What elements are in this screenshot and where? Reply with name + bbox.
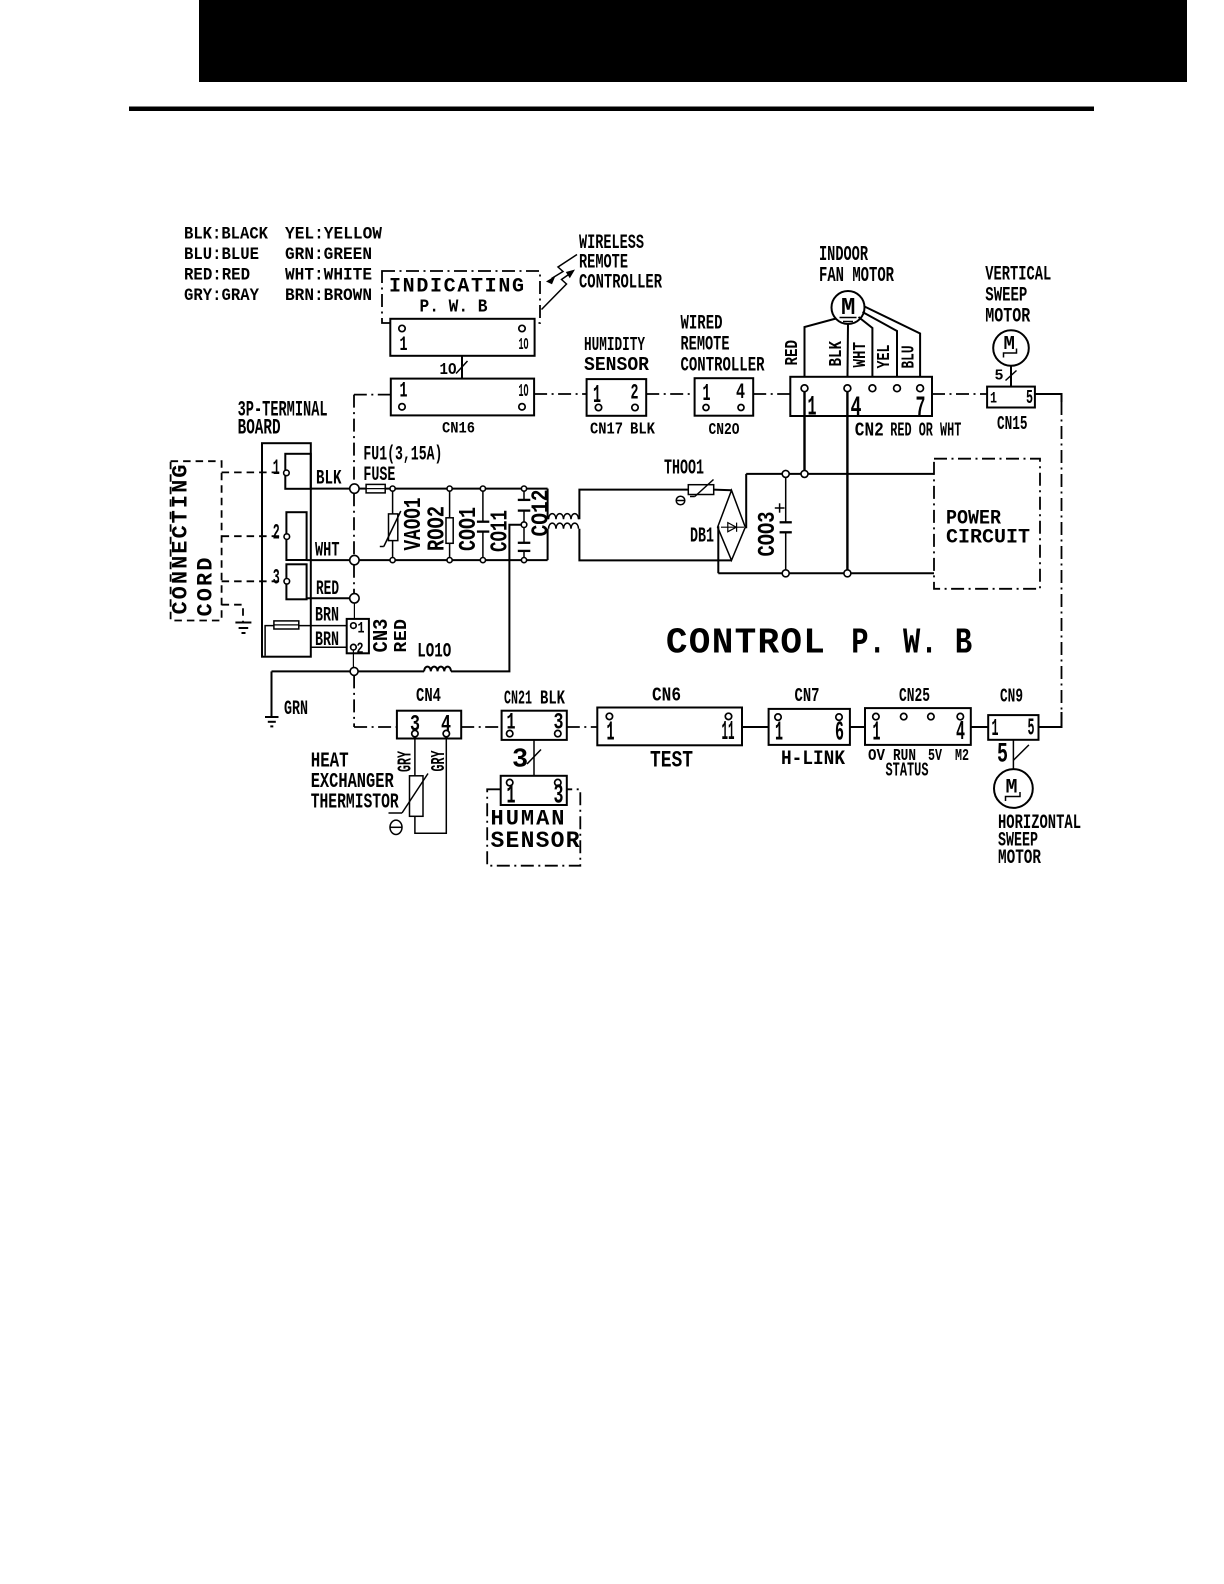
connector CN17 humidity sensor: [587, 379, 656, 439]
svg-text:YEL: YEL: [875, 345, 895, 369]
svg-text:4: 4: [736, 380, 745, 405]
svg-text:FAN MOTOR: FAN MOTOR: [819, 265, 894, 288]
human sensor connector: [501, 776, 567, 812]
heat exchanger thermistor label: [311, 751, 399, 815]
wire DB1 minus drop to bottom rail: [717, 527, 720, 573]
svg-text:3: 3: [273, 566, 280, 591]
motor M vertical sweep: [993, 330, 1029, 366]
svg-text:4: 4: [956, 718, 965, 748]
svg-text:1O: 1O: [440, 361, 457, 380]
svg-text:1: 1: [400, 334, 408, 357]
terminal 1: [273, 454, 311, 489]
svg-text:CONTROLLER: CONTROLLER: [681, 355, 765, 378]
node C003 top: [782, 470, 789, 477]
svg-text:H-LINK: H-LINK: [781, 748, 845, 771]
svg-text:HUMIDITY: HUMIDITY: [584, 334, 645, 356]
svg-text:1: 1: [507, 782, 516, 812]
wire L010 to riser: [451, 525, 521, 672]
terminal 3: [273, 564, 307, 599]
svg-text:5: 5: [1026, 387, 1033, 409]
svg-text:CN17: CN17: [590, 421, 623, 440]
wire CN25 to CN9: [971, 726, 988, 728]
connecting cord dashed box: [169, 461, 222, 620]
svg-text:CN6: CN6: [652, 685, 681, 707]
svg-text:RED: RED: [783, 340, 803, 366]
svg-text:WHT: WHT: [851, 342, 871, 368]
svg-text:CIRCUIT: CIRCUIT: [946, 527, 1030, 550]
svg-text:1: 1: [273, 456, 280, 481]
capacitor C003: [780, 477, 792, 569]
power circuit dashed box: [934, 459, 1040, 589]
svg-text:CN4: CN4: [416, 685, 441, 707]
wire dashed cord to earth: [222, 605, 243, 622]
motor M horizontal sweep: [994, 769, 1033, 808]
svg-text:CN2O: CN2O: [709, 421, 740, 440]
wire dash-dot right boundary vertical: [1061, 402, 1063, 712]
wire dash-dot CN4 to CN21: [461, 726, 501, 728]
fuse FU1: [359, 484, 385, 493]
wire line filter bottom rail: [359, 559, 547, 561]
svg-text:COO1: COO1: [456, 507, 483, 551]
wired remote controller label: [681, 313, 765, 378]
motor M indoor fan: [832, 291, 865, 324]
labels OV RUN 5V M2 STATUS: [868, 747, 969, 782]
svg-text:RED OR WHT: RED OR WHT: [890, 420, 961, 442]
svg-text:1O: 1O: [519, 382, 529, 402]
capacitor C011/C012 pair upper: [518, 486, 531, 528]
svg-text:6: 6: [835, 719, 844, 749]
svg-text:SENSOR: SENSOR: [491, 828, 580, 854]
humidity sensor label: [584, 334, 650, 376]
svg-text:RED:RED: RED:RED: [184, 266, 250, 286]
connector CN6: [597, 685, 742, 774]
wire WHT terminal to PWB: [307, 559, 350, 561]
svg-text:WHT: WHT: [315, 540, 340, 563]
vertical sweep motor label: [985, 264, 1051, 329]
connector CN15: [987, 387, 1035, 435]
wire dashed cord to terminal 1: [222, 471, 284, 473]
svg-text:3: 3: [512, 746, 528, 776]
wire dash-dot CN2 to CN15: [932, 393, 987, 395]
svg-text:WIRED: WIRED: [681, 313, 723, 336]
inductor L010: [417, 641, 451, 672]
PWB boundary dash-dot vertical upper: [353, 395, 355, 594]
svg-text:BRN: BRN: [315, 605, 339, 628]
svg-text:INDICATING: INDICATING: [389, 276, 524, 299]
bridge rectifier DB1: [718, 490, 746, 560]
svg-text:1O: 1O: [519, 335, 529, 354]
connector CN2: [790, 377, 932, 424]
connector CN21: [502, 688, 567, 740]
svg-text:11: 11: [722, 718, 735, 748]
wire CN15 to right boundary: [1035, 394, 1062, 402]
svg-text:CONTROL: CONTROL: [666, 623, 825, 664]
capacitor C012 pair lower: [518, 528, 531, 563]
node CN2 pin1 junction: [801, 470, 808, 477]
resistor R002: [446, 486, 453, 563]
wire thermistor loop to CN4 pin4: [415, 737, 446, 834]
PWB boundary dash-dot to CN4: [354, 675, 397, 727]
theta symbol thermistor: [390, 820, 402, 834]
wire motor WHT: [859, 317, 873, 385]
svg-text:BLK: BLK: [540, 688, 565, 710]
wire CN7 to CN25: [850, 726, 865, 728]
PWB boundary terminal circle BLK: [350, 484, 359, 493]
indicating PWB connector (mates CN16): [390, 319, 534, 357]
svg-text:CN3: CN3: [371, 619, 394, 653]
svg-text:MOTOR: MOTOR: [985, 306, 1031, 329]
svg-text:CONNECTING: CONNECTING: [169, 465, 194, 615]
svg-text:CN2: CN2: [855, 420, 884, 442]
wire DC top rail: [746, 473, 934, 475]
node CN2 pin4 junction: [844, 570, 851, 577]
svg-text:P. W. B: P. W. B: [851, 623, 972, 664]
indicating PWB dashed box: [382, 271, 540, 323]
svg-text:BRN:BROWN: BRN:BROWN: [285, 286, 372, 306]
label FU1 fuse: [363, 444, 442, 488]
node circle on GRN wire: [350, 667, 358, 675]
wire motor YEL: [863, 312, 898, 385]
svg-text:SENSOR: SENSOR: [584, 354, 650, 376]
svg-text:REMOTE: REMOTE: [681, 334, 730, 357]
svg-text:CN21: CN21: [504, 688, 532, 710]
thermal fuse in terminal board: [265, 621, 299, 656]
wire RED terminal to PWB: [307, 597, 350, 599]
svg-text:CN25: CN25: [899, 685, 930, 707]
connector CN16: [391, 379, 534, 438]
svg-text:THERMISTOR: THERMISTOR: [311, 792, 399, 815]
svg-text:BLK: BLK: [827, 341, 847, 367]
PWB boundary terminal circle WHT: [350, 555, 359, 564]
svg-text:GRN:GREEN: GRN:GREEN: [285, 245, 372, 265]
indoor fan motor label: [819, 244, 894, 288]
svg-text:YEL:YELLOW: YEL:YELLOW: [285, 225, 382, 245]
PWB boundary terminal circle RED: [350, 594, 359, 603]
varistor VA001: [380, 486, 401, 563]
wire 5-conductor motor to CN15: [995, 366, 1017, 387]
svg-text:1: 1: [400, 379, 408, 404]
svg-text:TEST: TEST: [650, 748, 693, 774]
wire motor BLU: [865, 307, 921, 386]
svg-text:LO1O: LO1O: [417, 641, 451, 664]
wire CN3 pin2 to node: [352, 650, 354, 667]
svg-text:BRN: BRN: [315, 629, 339, 652]
thermistor TH001: [688, 480, 713, 497]
svg-text:BLK: BLK: [630, 421, 656, 440]
svg-text:GRN: GRN: [284, 698, 308, 721]
wire dash-dot CN16 left to PWB boundary: [354, 394, 391, 396]
svg-text:INDOOR: INDOOR: [819, 244, 868, 267]
arrow from CN16 corner to text: [542, 270, 576, 310]
svg-text:1: 1: [873, 719, 881, 749]
svg-text:1: 1: [358, 620, 365, 638]
terminal 2: [273, 512, 307, 560]
wireless remote controller label: [579, 232, 662, 295]
wire CN6 to CN7: [742, 726, 769, 728]
connector CN25: [865, 685, 971, 749]
wire dash-dot CN20 to CN2: [753, 393, 790, 395]
wire RED circle to CN3: [353, 603, 355, 623]
3P-terminal board label: [238, 398, 328, 441]
plus sign C003: [775, 503, 785, 512]
svg-text:1: 1: [990, 390, 997, 408]
choke top winding: [548, 489, 689, 520]
svg-text:3: 3: [554, 782, 564, 812]
wire thermal fuse to CN3 pin1: [299, 625, 350, 627]
svg-text:BLU:BLUE: BLU:BLUE: [184, 245, 259, 265]
wire BRN to CN3 pin2: [311, 646, 350, 648]
svg-text:5V: 5V: [928, 747, 943, 766]
svg-text:2: 2: [631, 381, 639, 406]
wire dash-dot CN21 to CN6: [567, 726, 598, 728]
svg-text:2: 2: [357, 640, 364, 658]
wire motor RED to CN2 pin1: [805, 319, 837, 386]
svg-text:MOTOR: MOTOR: [998, 847, 1041, 870]
wire DC bottom rail: [718, 572, 934, 574]
wire 10-conductor bus between indicating pwb and CN16: [440, 356, 468, 380]
ground symbol GRN: [265, 717, 279, 726]
svg-text:CONTROLLER: CONTROLLER: [579, 272, 662, 295]
svg-text:COO3: COO3: [755, 512, 782, 557]
svg-text:CN9: CN9: [1000, 686, 1023, 708]
wire dash-dot CN17 to CN20: [646, 393, 694, 395]
svg-text:5: 5: [997, 740, 1008, 771]
svg-text:CN7: CN7: [795, 685, 820, 707]
svg-text:5: 5: [995, 368, 1004, 385]
svg-text:M2: M2: [955, 747, 969, 766]
svg-text:STATUS: STATUS: [886, 760, 929, 782]
choke bottom winding: [548, 523, 732, 560]
svg-text:GRY:GRAY: GRY:GRAY: [184, 286, 259, 306]
svg-text:FUSE: FUSE: [363, 464, 395, 487]
earth ground near terminal board: [235, 623, 251, 634]
svg-text:M: M: [1004, 333, 1015, 355]
wire TH001 to DB1: [714, 489, 732, 492]
connector CN9: [988, 686, 1038, 744]
horizontal sweep motor label: [998, 812, 1081, 870]
wire dash-dot CN16 to CN17: [534, 393, 587, 395]
connector CN7: [769, 685, 850, 771]
color legend: [184, 225, 382, 307]
connector CN3: [347, 619, 369, 658]
svg-text:CN15: CN15: [997, 413, 1028, 435]
header rule: [129, 107, 1094, 112]
capacitor C001: [477, 486, 489, 563]
svg-text:OV: OV: [868, 747, 886, 766]
svg-text:VERTICAL: VERTICAL: [985, 264, 1051, 287]
wire GRN ground run: [272, 671, 425, 716]
header black banner: [199, 0, 1187, 82]
node C003 bottom: [782, 570, 789, 577]
connector CN4: [397, 685, 461, 739]
svg-text:BOARD: BOARD: [238, 416, 281, 441]
svg-text:2: 2: [273, 521, 280, 546]
svg-text:WHT:WHITE: WHT:WHITE: [285, 266, 372, 286]
connector CN20 wired remote controller: [695, 378, 754, 440]
label CN2 RED OR WHT: [855, 420, 962, 442]
label CONTROL P.W.B: [666, 623, 972, 664]
svg-text:GRY: GRY: [395, 751, 417, 772]
wire motor BLK to CN2 pin4: [846, 324, 849, 385]
svg-text:5: 5: [1028, 716, 1035, 743]
svg-text:THOO1: THOO1: [664, 458, 704, 481]
wire dashed cord to terminal 3: [222, 580, 284, 582]
svg-text:BLU: BLU: [900, 346, 920, 369]
human sensor dashed box: [487, 789, 580, 865]
theta symbol TH001: [676, 496, 685, 505]
svg-text:CN16: CN16: [442, 420, 475, 438]
svg-text:SWEEP: SWEEP: [985, 285, 1027, 308]
thermistor heat exchanger: [389, 737, 429, 817]
wire DB1 plus riser to top rail: [744, 474, 747, 527]
svg-text:DB1: DB1: [690, 526, 714, 549]
svg-text:CO11: CO11: [488, 510, 515, 552]
svg-text:BLK: BLK: [316, 468, 342, 491]
svg-text:P. W. B: P. W. B: [420, 298, 488, 318]
svg-text:ROO2: ROO2: [425, 506, 452, 551]
svg-text:1: 1: [808, 393, 817, 424]
wire 3-conductor CN21 to human sensor: [512, 740, 541, 776]
arrow to indicating pwb: [546, 255, 577, 285]
svg-text:BLK:BLACK: BLK:BLACK: [184, 225, 268, 245]
3P terminal board box: [262, 443, 311, 657]
svg-text:RED: RED: [392, 619, 412, 653]
wire CN2 pin4 down to bottom rail: [846, 392, 848, 570]
wire BLK terminal to fuse: [311, 488, 350, 490]
wire right boundary to CN9: [1039, 712, 1062, 727]
svg-text:1: 1: [775, 719, 783, 749]
wire line filter top rail: [385, 488, 547, 490]
wire CN2 pin1 down to top rail: [803, 392, 805, 471]
svg-text:1: 1: [607, 719, 615, 749]
wire 5-conductor CN9 to horizontal sweep motor: [997, 740, 1029, 771]
wire dashed cord to terminal 2: [222, 535, 284, 537]
